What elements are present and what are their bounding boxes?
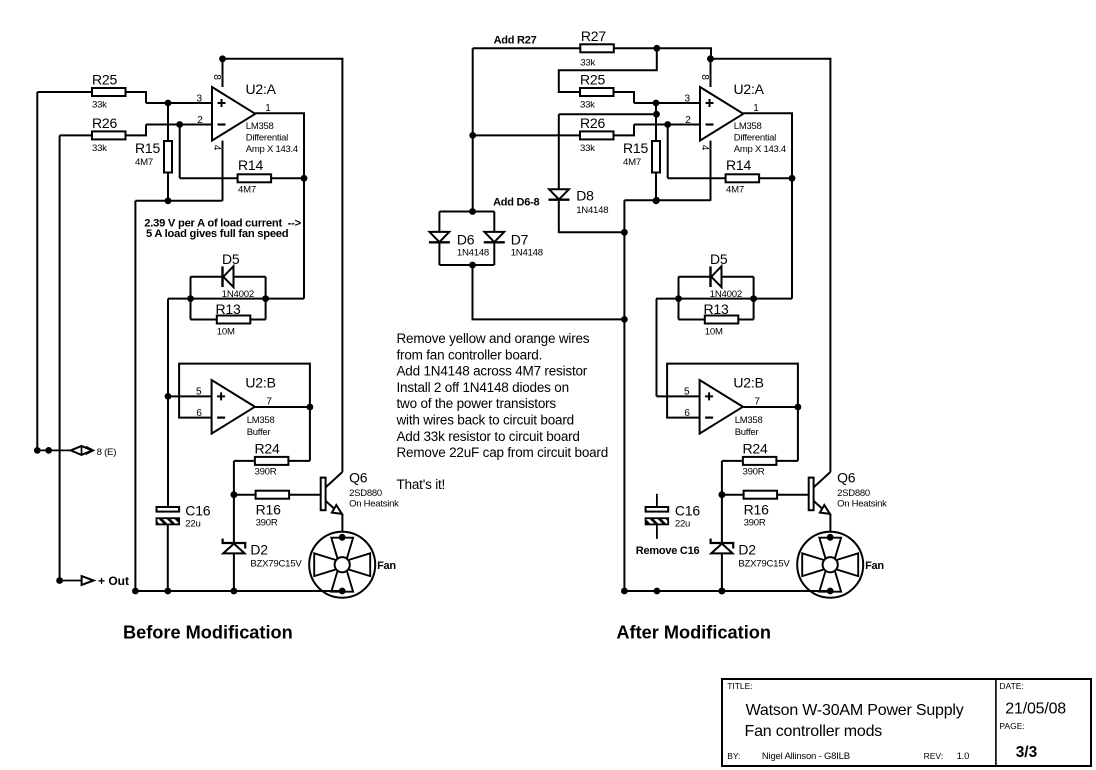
svg-text:D7: D7 — [511, 232, 529, 248]
svg-text:4M7: 4M7 — [135, 157, 153, 168]
svg-text:DATE:: DATE: — [999, 681, 1023, 691]
svg-text:R16: R16 — [744, 502, 769, 518]
svg-text:21/05/08: 21/05/08 — [1005, 701, 1066, 718]
svg-text:C16: C16 — [185, 503, 210, 519]
svg-text:Fan: Fan — [865, 560, 884, 572]
svg-text:4M7: 4M7 — [726, 185, 744, 196]
svg-text:R24: R24 — [255, 441, 280, 457]
svg-text:8 (E): 8 (E) — [97, 447, 117, 458]
svg-text:22u: 22u — [675, 519, 690, 530]
svg-text:PAGE:: PAGE: — [999, 721, 1024, 731]
svg-text:Buffer: Buffer — [735, 427, 759, 438]
svg-text:Add R27: Add R27 — [494, 35, 537, 47]
svg-text:Add 33k resistor to circuit bo: Add 33k resistor to circuit board — [397, 429, 580, 444]
svg-text:That's it!: That's it! — [397, 477, 446, 492]
svg-text:4M7: 4M7 — [238, 185, 256, 196]
svg-text:U2:B: U2:B — [245, 375, 275, 391]
svg-text:10M: 10M — [217, 327, 235, 338]
svg-text:C16: C16 — [675, 503, 700, 519]
svg-text:Install 2 off 1N4148 diodes on: Install 2 off 1N4148 diodes on — [397, 380, 569, 395]
svg-text:Fan: Fan — [377, 560, 396, 572]
svg-text:4: 4 — [699, 145, 710, 151]
svg-text:D5: D5 — [710, 251, 728, 267]
svg-text:8: 8 — [211, 74, 222, 80]
svg-text:8: 8 — [699, 74, 710, 80]
svg-text:LM358: LM358 — [247, 415, 275, 426]
svg-text:1.0: 1.0 — [957, 751, 970, 762]
svg-text:4M7: 4M7 — [623, 157, 641, 168]
svg-text:R14: R14 — [726, 157, 751, 173]
svg-text:R15: R15 — [623, 140, 648, 156]
svg-text:Fan controller mods: Fan controller mods — [745, 723, 883, 740]
svg-text:10M: 10M — [705, 327, 723, 338]
svg-text:Amp X 143.4: Amp X 143.4 — [246, 144, 298, 155]
svg-text:3/3: 3/3 — [1016, 744, 1038, 761]
svg-text:R27: R27 — [581, 28, 606, 44]
svg-text:7: 7 — [266, 396, 272, 407]
svg-text:7: 7 — [754, 396, 760, 407]
svg-text:1: 1 — [753, 103, 759, 114]
svg-text:R26: R26 — [92, 115, 117, 131]
svg-text:LM358: LM358 — [735, 415, 763, 426]
svg-text:D6: D6 — [457, 232, 475, 248]
svg-text:Buffer: Buffer — [247, 427, 271, 438]
svg-text:REV:: REV: — [924, 751, 944, 761]
svg-text:On Heatsink: On Heatsink — [349, 499, 399, 510]
svg-text:U2:A: U2:A — [734, 81, 765, 97]
svg-text:33k: 33k — [92, 143, 107, 154]
svg-text:Watson W-30AM Power Supply: Watson W-30AM Power Supply — [746, 702, 964, 719]
svg-text:1N4148: 1N4148 — [511, 248, 543, 259]
svg-text:R25: R25 — [92, 72, 117, 88]
svg-text:TITLE:: TITLE: — [727, 681, 753, 691]
svg-text:D2: D2 — [738, 542, 756, 558]
svg-text:33k: 33k — [580, 58, 595, 69]
svg-text:R26: R26 — [580, 115, 605, 131]
svg-text:BY:: BY: — [727, 751, 740, 761]
svg-text:two of the power transistors: two of the power transistors — [397, 396, 557, 411]
svg-text:with wires back to circuit boa: with wires back to circuit board — [396, 413, 574, 428]
svg-text:R14: R14 — [238, 157, 263, 173]
svg-text:+ Out: + Out — [98, 574, 129, 588]
svg-text:Add D6-8: Add D6-8 — [493, 197, 539, 209]
svg-text:5 A load gives full fan speed: 5 A load gives full fan speed — [146, 228, 289, 240]
svg-text:33k: 33k — [92, 100, 107, 111]
svg-text:390R: 390R — [743, 467, 765, 478]
svg-text:Before Modification: Before Modification — [123, 623, 293, 643]
svg-text:U2:B: U2:B — [733, 375, 763, 391]
svg-text:LM358: LM358 — [734, 121, 762, 132]
svg-text:On Heatsink: On Heatsink — [837, 499, 887, 510]
svg-text:Remove yellow and orange wires: Remove yellow and orange wires — [397, 331, 590, 346]
svg-text:2SD880: 2SD880 — [349, 488, 382, 499]
svg-text:Remove 22uF cap from circuit b: Remove 22uF cap from circuit board — [397, 445, 609, 460]
svg-text:22u: 22u — [185, 519, 200, 530]
svg-text:33k: 33k — [580, 143, 595, 154]
svg-text:1N4148: 1N4148 — [576, 205, 608, 216]
svg-text:390R: 390R — [255, 467, 277, 478]
svg-text:Differential: Differential — [246, 133, 288, 144]
svg-text:Q6: Q6 — [837, 470, 856, 486]
svg-text:390R: 390R — [256, 518, 278, 529]
svg-text:After Modification: After Modification — [616, 623, 771, 643]
svg-text:1N4148: 1N4148 — [457, 248, 489, 259]
svg-text:LM358: LM358 — [246, 121, 274, 132]
svg-text:U2:A: U2:A — [246, 81, 277, 97]
svg-text:R13: R13 — [216, 301, 241, 317]
svg-text:Amp X 143.4: Amp X 143.4 — [734, 144, 786, 155]
svg-text:BZX79C15V: BZX79C15V — [250, 558, 302, 569]
svg-text:from fan controller board.: from fan controller board. — [397, 347, 543, 362]
svg-text:D2: D2 — [250, 542, 268, 558]
svg-text:1: 1 — [265, 103, 271, 114]
svg-text:R25: R25 — [580, 72, 605, 88]
svg-text:2SD880: 2SD880 — [837, 488, 870, 499]
svg-text:R24: R24 — [743, 441, 768, 457]
svg-text:BZX79C15V: BZX79C15V — [738, 558, 790, 569]
svg-text:Differential: Differential — [734, 133, 776, 144]
svg-text:Nigel Allinson - G8ILB: Nigel Allinson - G8ILB — [762, 751, 850, 762]
svg-text:Remove C16: Remove C16 — [636, 545, 700, 557]
svg-text:Q6: Q6 — [349, 470, 368, 486]
svg-text:D8: D8 — [576, 188, 594, 204]
svg-text:D5: D5 — [222, 251, 240, 267]
svg-text:33k: 33k — [580, 100, 595, 111]
svg-text:4: 4 — [211, 145, 222, 151]
svg-text:Add 1N4148 across 4M7 resistor: Add 1N4148 across 4M7 resistor — [397, 364, 588, 379]
svg-text:390R: 390R — [744, 518, 766, 529]
svg-text:R13: R13 — [704, 301, 729, 317]
svg-text:R16: R16 — [256, 502, 281, 518]
svg-text:R15: R15 — [135, 140, 160, 156]
